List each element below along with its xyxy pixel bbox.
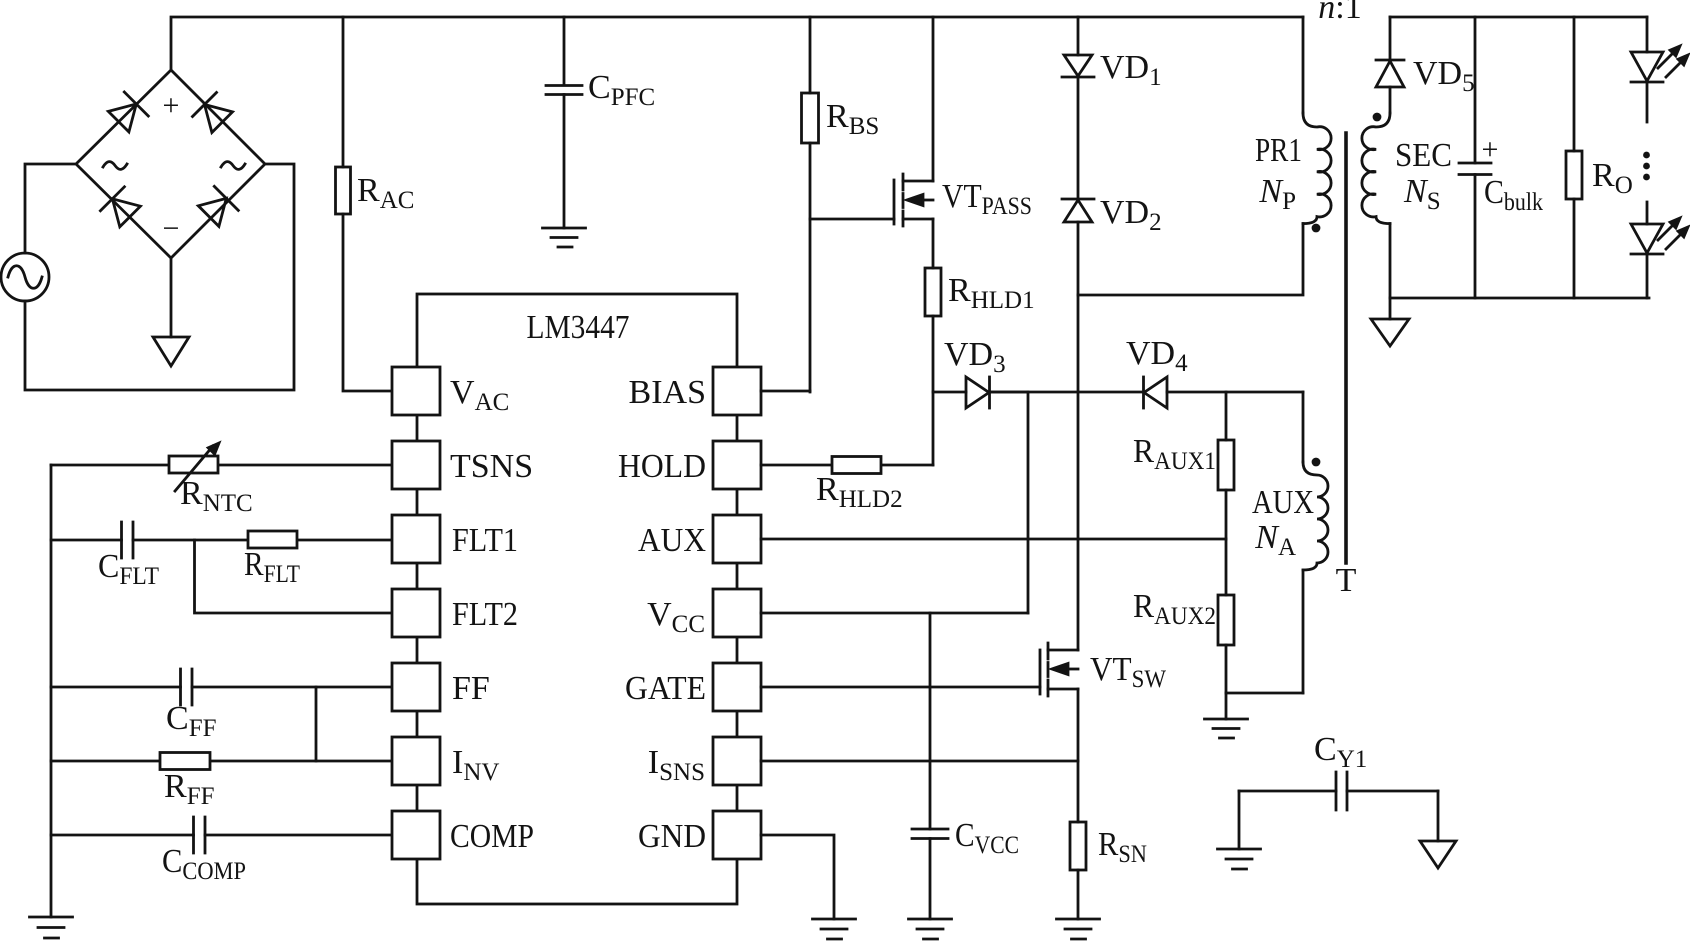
svg-text:CVCC: CVCC [955, 817, 1019, 859]
resistor R_AUX2 [1218, 539, 1234, 693]
ground AUX divider [1205, 719, 1248, 738]
svg-text:VD3: VD3 [944, 336, 1006, 378]
svg-text:INV: INV [452, 744, 499, 786]
svg-text:RAUX2: RAUX2 [1133, 588, 1216, 630]
resistor R_AUX1 [1218, 392, 1234, 539]
svg-text:NA: NA [1254, 519, 1296, 561]
bridge AC tilde mark left [103, 162, 127, 170]
svg-text:BIAS: BIAS [629, 374, 706, 411]
wire SEC bottom to output return rail [1390, 224, 1649, 299]
svg-text:VD1: VD1 [1100, 49, 1162, 91]
AC source V1 [1, 253, 49, 301]
svg-text:COMP: COMP [450, 818, 534, 855]
pin box GATE [713, 663, 761, 711]
wire AUX row [761, 538, 1226, 541]
bridge diode top-right [193, 93, 233, 133]
wire AUX divider bottom to winding bottom [1226, 692, 1303, 695]
svg-text:VTSW: VTSW [1090, 651, 1166, 693]
bridge AC tilde mark right [221, 162, 245, 170]
diode VD1 [1062, 17, 1094, 77]
wire PR1 bottom to primary return rail [1078, 224, 1303, 296]
wire AUX winding bottom [1302, 570, 1305, 693]
ground GND pin [813, 919, 856, 939]
svg-text:RBS: RBS [826, 98, 879, 140]
wire VD3-VD4 rail [990, 391, 1144, 394]
transformer core [1344, 133, 1348, 563]
wire TSNS to pin [51, 464, 392, 467]
IC LM3447 body [417, 294, 737, 904]
svg-text:RSN: RSN [1098, 826, 1147, 868]
wire AC source bottom to bridge right vertex [25, 164, 294, 390]
wire LED string riser [1646, 17, 1649, 52]
svg-text:RO: RO [1592, 157, 1633, 199]
resistor R_FLT [248, 531, 297, 548]
phase dot AUX [1312, 458, 1321, 467]
pin box COMP [392, 811, 440, 859]
capacitor C_bulk [1459, 17, 1491, 298]
diode VD4 [1144, 377, 1304, 408]
svg-text:FLT2: FLT2 [452, 596, 518, 633]
pin box GND [713, 811, 761, 859]
pin box BIAS [713, 367, 761, 415]
svg-text:AUX: AUX [638, 522, 706, 559]
resistor R_BS [802, 17, 819, 392]
svg-text:+: + [1482, 133, 1499, 166]
transistor VT_PASS [894, 174, 933, 226]
capacitor C_COMP [51, 817, 392, 853]
ground secondary (triangle) [1371, 319, 1409, 346]
resistor R_HLD1 [925, 268, 941, 465]
svg-text:ISNS: ISNS [648, 744, 705, 786]
pin box VCC [713, 589, 761, 637]
wire LED string upper [1646, 82, 1649, 122]
wire INV row [51, 760, 392, 763]
resistor R_NTC (thermistor) [169, 443, 219, 491]
wire BIAS to R_BS [761, 390, 810, 393]
svg-text:RNTC: RNTC [180, 475, 253, 517]
svg-text:RAC: RAC [357, 172, 414, 214]
ground C_PFC [543, 228, 586, 247]
svg-text:RHLD1: RHLD1 [948, 272, 1035, 314]
transformer AUX winding N_A [1303, 462, 1328, 570]
svg-text:+: + [163, 89, 180, 122]
phase dot PR1 [1312, 224, 1321, 233]
pin box HOLD [713, 441, 761, 489]
wire top bus primary [171, 17, 1303, 70]
wire R_BS to VT_PASS gate [810, 218, 894, 221]
phase dot SEC [1373, 113, 1382, 122]
wire AUX winding top riser [1302, 392, 1305, 462]
svg-text:RFLT: RFLT [244, 546, 300, 588]
wire GATE row [761, 686, 1040, 689]
wire VCC riser to VD3 rail [1027, 392, 1030, 613]
pin box FF [392, 663, 440, 711]
wire HOLD row [761, 464, 933, 467]
diode VD5 [1376, 17, 1404, 113]
resistor R_O [1566, 17, 1582, 298]
ground bridge (triangle) [153, 337, 189, 366]
wire PR1 top riser [1302, 17, 1305, 113]
wire FF to INV branch [315, 687, 318, 761]
bridge diode top-left [108, 92, 148, 132]
svg-text:VD5: VD5 [1413, 55, 1475, 97]
wire VT_SW source to ISNS node and R_SN [1077, 689, 1080, 822]
resistor R_AC [336, 17, 393, 391]
capacitor C_FLT [51, 522, 392, 558]
wire VT_PASS drain to top bus [932, 17, 935, 181]
ground C_VCC [909, 919, 952, 939]
pin box INV [392, 737, 440, 785]
resistor R_FF [160, 753, 210, 770]
svg-text:FF: FF [452, 670, 490, 707]
bridge diode bottom-right [198, 186, 238, 226]
capacitor C_Y1 [1239, 772, 1438, 810]
wire ISNS row [761, 760, 1078, 763]
svg-text:VD2: VD2 [1100, 194, 1162, 236]
resistor R_SN [1070, 822, 1086, 919]
wire VCC row [761, 612, 1028, 615]
wire SEC return to ground [1389, 298, 1392, 319]
pin box FLT1 [392, 515, 440, 563]
svg-text:CFLT: CFLT [98, 548, 159, 590]
svg-text:RHLD2: RHLD2 [816, 471, 903, 513]
bridge rectifier diamond [76, 70, 265, 258]
svg-text:VCC: VCC [647, 596, 705, 638]
svg-text:HOLD: HOLD [618, 448, 706, 485]
diode VD3 [933, 377, 1028, 408]
svg-text:RFF: RFF [164, 768, 215, 810]
wire C_Y1 left to ground [1238, 791, 1241, 849]
resistor R_HLD2 [832, 457, 881, 474]
svg-text:CY1: CY1 [1314, 731, 1367, 773]
ground C_Y1 right (triangle) [1420, 841, 1456, 868]
LED D_bottom [1631, 218, 1688, 254]
svg-text:T: T [1336, 562, 1357, 599]
LED D_top [1631, 46, 1688, 82]
svg-text:−: − [163, 212, 180, 245]
pin box ISNS [713, 737, 761, 785]
svg-text:NS: NS [1403, 173, 1441, 215]
svg-text:VD4: VD4 [1126, 335, 1188, 377]
wire VD2 to primary-return rail and VT_SW drain [1077, 222, 1080, 650]
capacitor C_VCC [912, 613, 948, 919]
svg-text:NP: NP [1258, 173, 1296, 215]
wire VT_PASS source to R_HLD1 [932, 219, 935, 268]
wire AC source top to bridge left vertex [25, 164, 74, 253]
svg-text:GND: GND [638, 818, 706, 855]
pin box AUX [713, 515, 761, 563]
ground C_Y1 left [1218, 849, 1261, 869]
pin box VAC [392, 367, 440, 415]
capacitor C_PFC [546, 17, 582, 228]
svg-text:AUX: AUX [1252, 484, 1314, 521]
pin box TSNS [392, 441, 440, 489]
svg-text:LM3447: LM3447 [527, 309, 630, 346]
svg-text:VAC: VAC [450, 374, 509, 416]
diode VD2 [1062, 77, 1094, 222]
wire LED bottom to return rail [1646, 254, 1649, 298]
svg-text:GATE: GATE [625, 670, 706, 707]
wire AUX divider to ground [1225, 693, 1228, 719]
svg-text:FLT1: FLT1 [452, 522, 518, 559]
svg-text:VTPASS: VTPASS [942, 178, 1032, 220]
ellipsis LED string [1643, 152, 1650, 181]
wire C_Y1 right to chassis ground [1437, 791, 1440, 841]
svg-text:TSNS: TSNS [450, 448, 533, 485]
svg-text:CPFC: CPFC [588, 69, 655, 111]
wire LED string lower [1646, 202, 1649, 224]
wire FLT1 to FLT2 branch [195, 540, 393, 613]
svg-text:PR1: PR1 [1255, 132, 1302, 169]
ground R_SN [1057, 919, 1100, 939]
transformer primary winding PR1 N_P [1303, 113, 1331, 224]
svg-text:RAUX1: RAUX1 [1133, 433, 1216, 475]
wire bridge bottom vertex to ground [170, 258, 173, 337]
svg-text:Cbulk: Cbulk [1484, 174, 1543, 216]
wire GND pin to ground [761, 835, 834, 919]
svg-text:n:1: n:1 [1318, 0, 1361, 26]
transistor VT_SW [1040, 643, 1078, 696]
bridge diode bottom-left [100, 187, 140, 227]
wire TSNS net left rail [50, 465, 53, 917]
wire secondary top bus [1390, 16, 1647, 19]
ground left rail [30, 917, 73, 938]
transformer secondary winding SEC N_S [1362, 113, 1390, 224]
svg-text:SEC: SEC [1395, 137, 1452, 174]
capacitor C_FF [51, 669, 392, 705]
pin box FLT2 [392, 589, 440, 637]
